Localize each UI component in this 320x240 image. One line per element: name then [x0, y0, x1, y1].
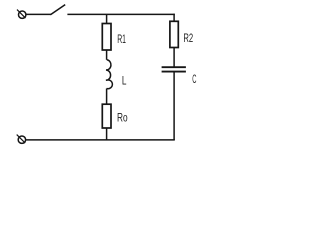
capacitor C (two plates) — [162, 67, 186, 71]
wire: Ro to bottom rail — [106, 128, 108, 140]
svg-text:R2: R2 — [183, 31, 193, 45]
resistor R1 — [102, 24, 111, 51]
resistor R2 — [170, 21, 178, 47]
svg-text:C: C — [192, 72, 196, 86]
wire: top rail from switch to top-right corner — [67, 13, 174, 15]
svg-text:R1: R1 — [117, 32, 126, 46]
terminal X2 (bottom input clamp) — [17, 135, 26, 144]
wire: R1 to L — [106, 50, 108, 60]
svg-text:L: L — [122, 74, 127, 88]
switch S (open blade) — [50, 5, 65, 15]
resistor Ro — [102, 104, 111, 128]
terminal X1 (top input clamp) — [17, 10, 26, 19]
inductor L (3 loops) — [106, 60, 112, 89]
wire: L to Ro — [106, 89, 108, 105]
wire: top-right corner down to R2 — [173, 14, 175, 22]
wire: R2 to capacitor — [173, 48, 175, 67]
wire: bottom rail — [26, 139, 175, 141]
wire: capacitor to bottom rail — [173, 72, 175, 140]
svg-text:Ro: Ro — [117, 110, 128, 124]
wire: stub from top rail down to R1 (node junction) — [106, 14, 108, 23]
wire: top terminal to switch pivot — [26, 13, 51, 15]
